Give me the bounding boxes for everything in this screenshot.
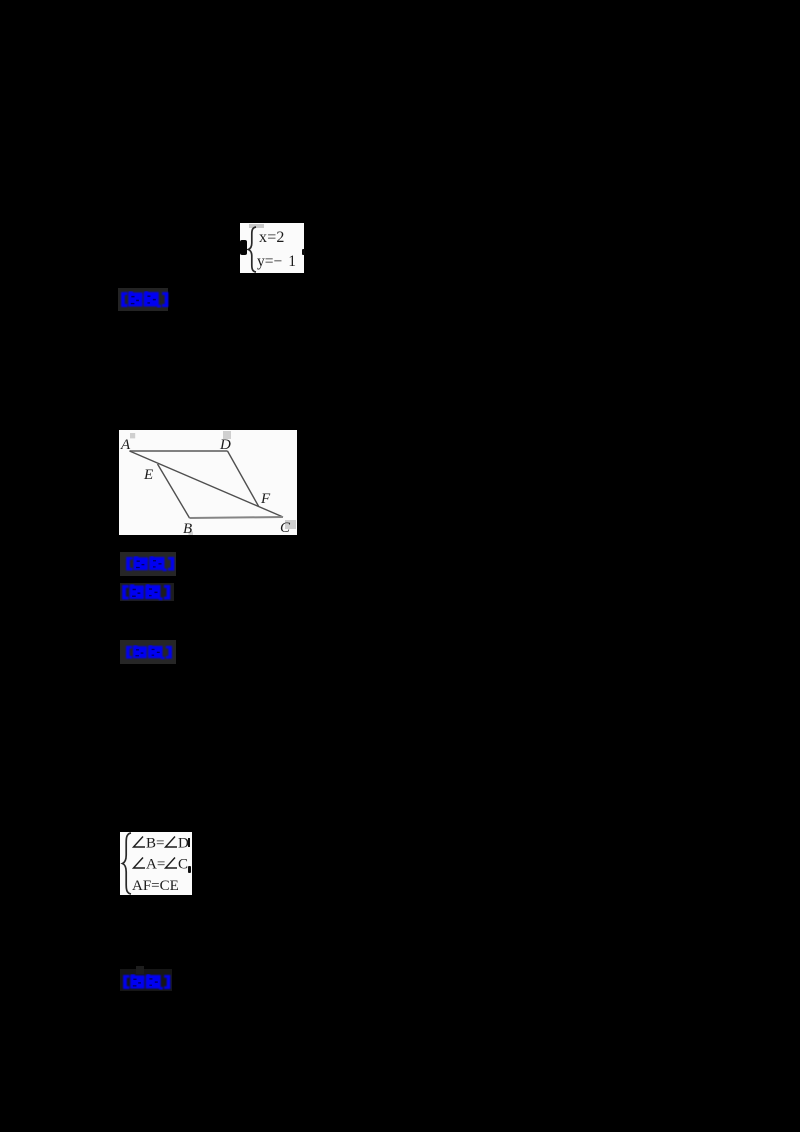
svg-text:E: E bbox=[143, 467, 153, 483]
svg-text:B=: B= bbox=[146, 836, 164, 851]
gray smudge top of equation box 1 bbox=[249, 224, 264, 228]
equation box 2: system of 3 conditions bbox=[120, 832, 192, 895]
blue label 4 【解答】 bbox=[120, 640, 176, 664]
side AD bbox=[130, 450, 228, 452]
geometry figure: quadrilateral ABCD with E,F on diagonal AC bbox=[119, 430, 297, 535]
svg-text:F: F bbox=[260, 491, 271, 507]
svg-text:C: C bbox=[280, 520, 291, 535]
blue label 1 【点评】 bbox=[118, 288, 168, 311]
condition: AF=CE bbox=[132, 878, 179, 895]
blue label 5 【点评】 bbox=[120, 969, 172, 991]
svg-text:A=: A= bbox=[146, 857, 165, 872]
shared defs for blurry blue CJK label glyphs bbox=[0, 0, 1, 1]
svg-text:A: A bbox=[120, 437, 131, 453]
gray artifact above D bbox=[223, 431, 231, 439]
diagonal AC bbox=[130, 451, 284, 517]
svg-text:C: C bbox=[178, 857, 188, 872]
condition: angle A = angle C bbox=[132, 856, 192, 871]
left brace of system 2 bbox=[120, 832, 134, 895]
blue label 2 【考点】 bbox=[120, 552, 176, 576]
vertex labels bbox=[120, 437, 291, 537]
svg-text:D: D bbox=[219, 437, 231, 453]
gray artifact above A bbox=[130, 433, 135, 438]
comma right of equation box 1 bbox=[302, 249, 305, 255]
blue label 3 【分析】 bbox=[120, 583, 174, 601]
equation y=-1 bbox=[257, 253, 303, 269]
comma marks at right edge of system 2 bbox=[188, 838, 190, 847]
side BC bbox=[190, 517, 284, 518]
gray artifact below B bbox=[189, 532, 194, 536]
gray artifact right of C bbox=[285, 520, 296, 529]
svg-text:B: B bbox=[183, 521, 192, 535]
segment DF bbox=[228, 451, 259, 506]
dark notch above label 5 bbox=[136, 966, 144, 974]
left brace of system 1 bbox=[246, 226, 260, 273]
equation x=2 bbox=[259, 229, 305, 246]
segment EB bbox=[158, 464, 190, 518]
condition: angle B = angle D bbox=[132, 835, 192, 850]
equation box 1: system {x=2, y=-1 bbox=[240, 223, 304, 273]
black blob left of brace (clipped glyph) bbox=[240, 240, 247, 255]
